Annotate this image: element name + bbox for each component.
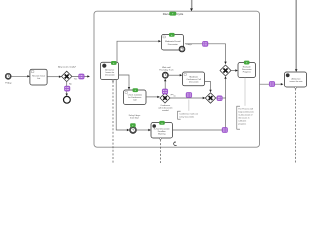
- svg-text:Discussion: Discussion: [189, 81, 199, 83]
- svg-text:every two weeks: every two weeks: [179, 116, 194, 119]
- svg-text:Progress: Progress: [243, 72, 251, 74]
- svg-text:progress: progress: [238, 123, 246, 125]
- svg-text:loop (continue) to: loop (continue) to: [238, 110, 254, 113]
- svg-text:issues for vote: issues for vote: [290, 80, 304, 83]
- svg-text:Moderate E-mail: Moderate E-mail: [165, 40, 181, 43]
- svg-text:Warning: Warning: [158, 133, 165, 135]
- svg-text:Discussion: Discussion: [168, 44, 179, 46]
- svg-text:Thursday, 9 am: Thursday, 9 am: [159, 69, 174, 72]
- svg-text:List: List: [37, 77, 41, 80]
- svg-text:from Start: from Start: [130, 117, 139, 120]
- svg-text:no: no: [173, 95, 175, 97]
- svg-text:Friday: Friday: [5, 81, 12, 84]
- svg-text:the issues in: the issues in: [238, 116, 249, 119]
- svg-text:Discussion: Discussion: [105, 75, 115, 77]
- svg-text:The Process will: The Process will: [238, 108, 253, 110]
- svg-text:Conference Calls are: Conference Calls are: [179, 114, 199, 116]
- svg-text:Yes: Yes: [74, 78, 77, 80]
- svg-text:7 days: 7 days: [186, 44, 192, 46]
- svg-text:Call: Call: [133, 99, 137, 101]
- svg-text:re-discussion of: re-discussion of: [238, 114, 252, 116]
- svg-text:Any issues ready?: Any issues ready?: [58, 66, 77, 69]
- svg-text:sufficient: sufficient: [238, 119, 246, 122]
- svg-text:Wait until: Wait until: [162, 66, 171, 69]
- svg-text:needed: needed: [162, 110, 168, 112]
